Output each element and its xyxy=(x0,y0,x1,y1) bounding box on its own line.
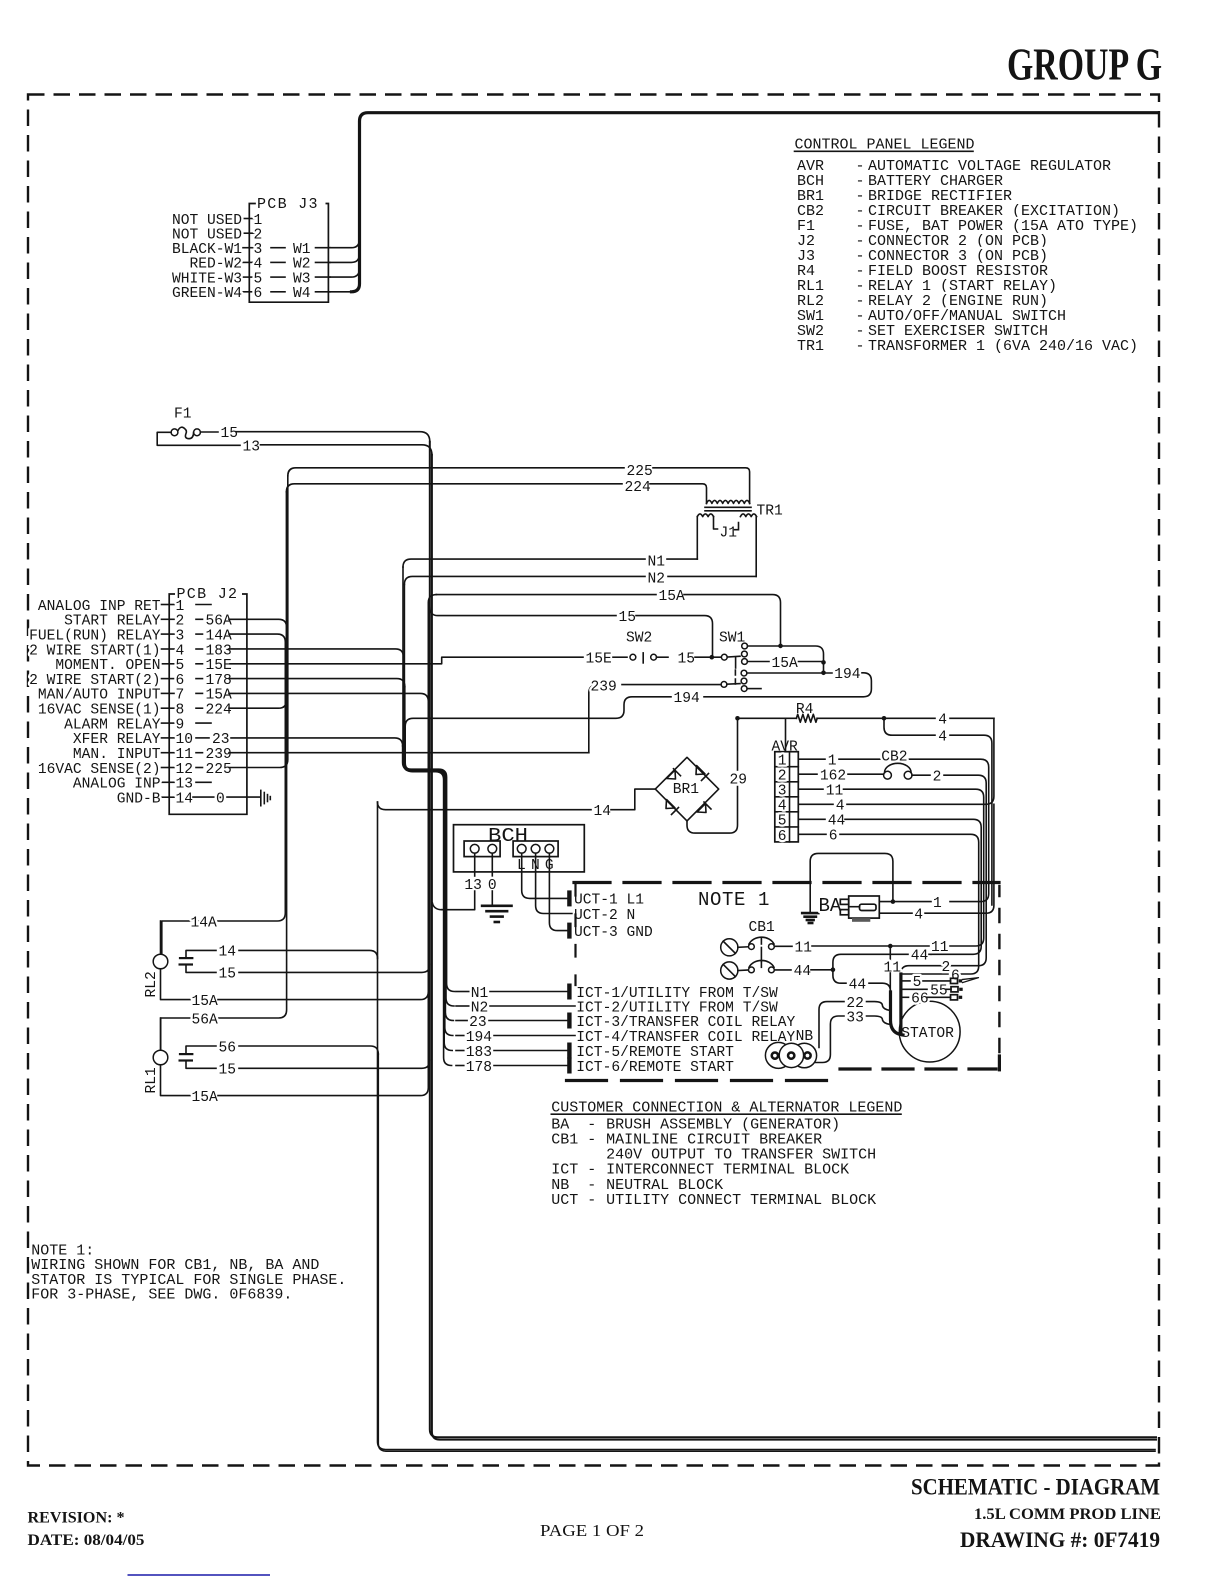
wire net 14 corner into BR1 run xyxy=(378,802,592,810)
wire net 66 with spade terminal xyxy=(903,996,909,998)
svg-text:MAN. INPUT: MAN. INPUT xyxy=(73,747,161,763)
svg-text:2: 2 xyxy=(176,614,185,630)
wire net N2 (TR1 to bundle) xyxy=(668,575,756,577)
svg-text:ICT-4/TRANSFER COIL RELAY: ICT-4/TRANSFER COIL RELAY xyxy=(576,1030,795,1046)
transformer TR1 secondary right coil xyxy=(740,514,756,517)
dashed boundary left edge xyxy=(574,884,576,985)
svg-text:15: 15 xyxy=(219,967,237,983)
wire net 4 from BA xyxy=(879,912,912,914)
J2 pin 7 MAN/AUTO INPUT xyxy=(162,692,175,694)
BR1 diode top-right xyxy=(696,766,709,781)
wire W3 to bus xyxy=(330,269,359,277)
svg-text:11: 11 xyxy=(795,940,813,956)
svg-text:PCB J2: PCB J2 xyxy=(177,586,239,603)
wire net 15A from SW1 xyxy=(747,661,769,663)
svg-text:1: 1 xyxy=(254,213,263,229)
svg-text:6: 6 xyxy=(176,673,185,689)
wire net 33 (NB to stator) xyxy=(815,1016,844,1063)
svg-text:2: 2 xyxy=(778,769,787,785)
J2 pin 5 MOMENT. OPEN xyxy=(162,663,175,665)
switch SW1 pole 1 stationary contacts xyxy=(742,643,748,649)
wire net 162 (AVR-2 to CB2) xyxy=(798,773,817,775)
svg-text:225: 225 xyxy=(627,464,653,480)
svg-text:TR1: TR1 xyxy=(757,503,784,519)
svg-text:13: 13 xyxy=(243,440,261,456)
svg-text:56: 56 xyxy=(219,1040,237,1056)
wire net 11 drop to stator xyxy=(889,946,891,960)
CB1 pole 2 screw terminal xyxy=(721,962,738,979)
svg-text:6: 6 xyxy=(254,286,263,302)
wire W1 to bus xyxy=(330,240,359,248)
wire net 44 upper run to bundle xyxy=(833,954,908,969)
terminal ICT-2 wire net N2 xyxy=(456,1005,469,1007)
svg-text:16VAC SENSE(2): 16VAC SENSE(2) xyxy=(38,762,161,778)
svg-text:11: 11 xyxy=(826,784,844,800)
svg-text:7: 7 xyxy=(176,688,185,704)
wire BCH N to UCT-2 xyxy=(536,853,575,913)
wire net 4 second run xyxy=(884,718,935,735)
svg-text:1: 1 xyxy=(828,754,837,770)
BCH terminal strip 13/0 xyxy=(464,841,500,857)
svg-text:ANALOG INP RET: ANALOG INP RET xyxy=(38,599,161,615)
svg-text:14: 14 xyxy=(219,945,237,961)
wire net 15 branch to SW1 xyxy=(430,608,616,616)
svg-text:224: 224 xyxy=(206,703,233,719)
svg-text:13: 13 xyxy=(464,878,482,894)
svg-text:ICT-6/REMOTE START: ICT-6/REMOTE START xyxy=(576,1060,734,1076)
junction dot net 15 at SW1 xyxy=(710,655,715,660)
relay RL2 coil leads xyxy=(160,921,162,954)
svg-text:5: 5 xyxy=(254,271,263,287)
svg-text:194: 194 xyxy=(834,667,861,683)
J3 pin 2 NOT USED xyxy=(243,232,255,234)
svg-text:4: 4 xyxy=(254,257,263,273)
svg-text:-: - xyxy=(587,1192,596,1209)
blue underline mark bottom-left xyxy=(128,1574,271,1576)
wire net 11 (AVR-3 to CB1) xyxy=(798,788,823,790)
svg-text:-: - xyxy=(587,1132,596,1149)
svg-text:MOMENT. OPEN: MOMENT. OPEN xyxy=(55,658,160,674)
J3 pin 3 BLACK-W1 xyxy=(243,247,255,249)
svg-text:MAN/AUTO INPUT: MAN/AUTO INPUT xyxy=(38,688,161,704)
svg-text:9: 9 xyxy=(176,717,185,733)
wire net 225 (J2-12 to TR1 primary right) xyxy=(288,468,624,476)
svg-text:1: 1 xyxy=(176,599,185,615)
svg-text:GREEN-W4: GREEN-W4 xyxy=(172,286,242,302)
wire SW1 pole2 bottom stub xyxy=(747,688,761,690)
svg-text:10: 10 xyxy=(176,732,194,748)
svg-text:66: 66 xyxy=(911,992,929,1008)
svg-text:194: 194 xyxy=(466,1030,493,1046)
transformer TR1 secondary left coil xyxy=(697,514,713,517)
svg-text:FOR 3-PHASE, SEE DWG. 0F6839.: FOR 3-PHASE, SEE DWG. 0F6839. xyxy=(31,1287,292,1304)
svg-text:NOTE 1: NOTE 1 xyxy=(698,889,770,911)
dashed boundary bottom-right step xyxy=(840,1067,996,1070)
svg-text:14A: 14A xyxy=(191,915,218,931)
connector PCB J3 box xyxy=(249,204,328,303)
svg-text:44: 44 xyxy=(911,949,929,965)
wire BCH G to UCT-3 xyxy=(549,853,567,930)
J2 pin14 wire to ground, net 0 xyxy=(193,796,214,798)
svg-text:178: 178 xyxy=(466,1060,492,1076)
terminal ICT-6 wire net 178 xyxy=(456,1065,464,1067)
svg-text:DATE: 08/04/05: DATE: 08/04/05 xyxy=(28,1532,145,1549)
page dashed border frame xyxy=(28,95,1159,1466)
wire net 14A vertical (J2-3 down to RL2) xyxy=(162,634,285,954)
relay RL2 contact leads xyxy=(186,950,216,958)
wire net 44 lower run to stator xyxy=(833,970,846,984)
wire net 44 from CB1 xyxy=(774,969,791,971)
BR1 diode top-left xyxy=(667,769,681,779)
wire net 29 (R4 to BR1 + output) xyxy=(737,718,739,770)
ground symbol at BA xyxy=(802,912,818,915)
svg-text:4: 4 xyxy=(778,799,787,815)
J2 pin 12 16VAC SENSE(2) xyxy=(162,767,175,769)
J3 pin 4 RED-W2 xyxy=(243,261,255,263)
J2 pin 3 FUEL(RUN) RELAY xyxy=(162,633,175,635)
wire net 1 from BA xyxy=(879,901,931,903)
wire net 239 up to SW1 xyxy=(589,685,599,753)
wire net 239 (J2-11 right) xyxy=(229,752,589,754)
wire net 13 long vertical (F1 down to bottom exit) xyxy=(432,455,1156,1440)
J2 pin 11 MAN. INPUT xyxy=(162,752,175,754)
relay RL2 contact bars xyxy=(180,957,192,959)
svg-text:4: 4 xyxy=(938,713,947,729)
wire RL1 15A to 15A vertical xyxy=(218,1088,428,1096)
svg-text:UCT-3 GND: UCT-3 GND xyxy=(574,925,653,941)
wire net 15A branch to SW1 area xyxy=(436,594,656,596)
dashed boundary bottom-left xyxy=(567,1079,837,1082)
svg-text:15: 15 xyxy=(221,426,239,442)
svg-text:START RELAY: START RELAY xyxy=(64,614,161,630)
svg-text:4: 4 xyxy=(938,730,947,746)
wire net 194 from SW1 pole2 xyxy=(747,672,832,674)
svg-text:J1: J1 xyxy=(720,525,738,541)
svg-text:15E: 15E xyxy=(206,658,232,674)
stator lead bar 2 (nets 2/6) xyxy=(899,974,902,1033)
svg-text:2 WIRE START(1): 2 WIRE START(1) xyxy=(29,643,160,659)
battery charger BCH box xyxy=(454,825,585,872)
svg-text:8: 8 xyxy=(176,703,185,719)
svg-text:UCT-2 N: UCT-2 N xyxy=(574,908,635,924)
wire net 4 (AVR-4 up into bundle) xyxy=(798,803,833,805)
wire RL1 contact 15 to net-15 vertical xyxy=(239,1060,430,1068)
svg-text:16VAC SENSE(1): 16VAC SENSE(1) xyxy=(38,703,161,719)
terminal UCT-3 xyxy=(567,923,571,939)
BCH terminal strip L N G xyxy=(513,841,558,857)
terminal ICT-3 wire net 23 xyxy=(456,1020,467,1022)
wire net 4 with resistor R4 xyxy=(735,716,740,721)
svg-text:SCHEMATIC - DIAGRAM: SCHEMATIC - DIAGRAM xyxy=(911,1475,1160,1500)
wire net N1 (TR1 to bundle) xyxy=(667,558,697,560)
wire net 11 from CB1 xyxy=(774,945,792,947)
svg-text:4: 4 xyxy=(176,643,185,659)
svg-text:56A: 56A xyxy=(192,1012,219,1028)
svg-text:15A: 15A xyxy=(206,688,233,704)
svg-text:-: - xyxy=(856,338,865,355)
wire net 15A long vertical xyxy=(428,595,436,1088)
wire net 44 (AVR-5 to CB1) xyxy=(798,818,825,820)
svg-text:14A: 14A xyxy=(206,628,233,644)
wire net 56 vertical (RL1 to bottom exit) xyxy=(378,1054,1155,1451)
svg-text:178: 178 xyxy=(206,673,232,689)
wire W4 to bus xyxy=(330,291,352,293)
svg-text:ICT-3/TRANSFER COIL RELAY: ICT-3/TRANSFER COIL RELAY xyxy=(576,1015,795,1031)
svg-text:3: 3 xyxy=(254,242,263,258)
svg-text:4: 4 xyxy=(836,799,845,815)
svg-text:14: 14 xyxy=(176,792,194,808)
AVR connector box xyxy=(775,752,799,842)
wire net 14 long vertical (BR1 AC to RL2 and bottom exit) xyxy=(378,802,1156,1450)
svg-text:W4: W4 xyxy=(293,286,311,302)
svg-text:11: 11 xyxy=(931,940,949,956)
wire net 22 (NB to stator) xyxy=(819,1002,844,1048)
J2 pin 4 2 WIRE START(1) xyxy=(162,648,175,650)
svg-text:WHITE-W3: WHITE-W3 xyxy=(172,271,242,287)
svg-text:44: 44 xyxy=(828,814,846,830)
switch SW1 mechanical link dashes xyxy=(734,670,736,684)
J2 pin 6 2 WIRE START(2) xyxy=(162,678,175,680)
stator lead bar 1 (nets 11/44) xyxy=(891,992,904,1035)
svg-text:15: 15 xyxy=(619,610,637,626)
svg-text:GND-B: GND-B xyxy=(117,792,161,808)
svg-text:239: 239 xyxy=(591,679,617,695)
wire SW1 top contact to 15A/194 tie xyxy=(748,646,824,673)
J2 pin 2 START RELAY xyxy=(162,618,175,620)
switch SW2 contacts xyxy=(613,656,627,658)
wire net 1 (AVR-1 to BA) xyxy=(798,758,825,760)
transformer TR1 core xyxy=(705,506,751,508)
wire net 15 long vertical (F1 down to bottom exit) xyxy=(430,442,1156,1437)
bridge rectifier BR1 diamond xyxy=(655,757,718,821)
svg-text:UCT-1 L1: UCT-1 L1 xyxy=(574,893,644,909)
J2 pin 10 XFER RELAY xyxy=(162,737,175,739)
wire RL1 contact 56 to net-56 vertical xyxy=(239,1046,378,1054)
svg-text:44: 44 xyxy=(794,964,812,980)
svg-text:DRAWING #: 0F7419: DRAWING #: 0F7419 xyxy=(960,1527,1160,1552)
wire W2 to bus xyxy=(330,254,359,262)
fuse F1 symbol xyxy=(171,429,178,436)
J2 pin 1 ANALOG INP RET xyxy=(162,604,175,606)
svg-text:W2: W2 xyxy=(293,257,311,273)
svg-text:CB1: CB1 xyxy=(749,920,776,936)
wire net 4 from bundle down to BA xyxy=(925,804,994,913)
wire net 15E (J2-5 to SW2) xyxy=(230,657,583,664)
J3 pin 1 NOT USED xyxy=(243,218,255,220)
switch SW1 pole 1 movable contact xyxy=(721,654,727,660)
svg-text:REVISION: *: REVISION: * xyxy=(28,1510,125,1527)
svg-text:15A: 15A xyxy=(192,1090,219,1106)
J2 pin 9 ALARM RELAY xyxy=(162,722,175,724)
switch SW1 pole 2 movable contact xyxy=(721,682,727,688)
svg-text:162: 162 xyxy=(820,769,846,785)
wire BCH L to UCT-1 xyxy=(522,853,567,898)
svg-text:3: 3 xyxy=(778,784,787,800)
ground symbol at J2-14 xyxy=(260,790,262,805)
svg-text:5: 5 xyxy=(176,658,185,674)
svg-text:UTILITY CONNECT TERMINAL BLOCK: UTILITY CONNECT TERMINAL BLOCK xyxy=(606,1192,876,1209)
svg-text:15E: 15E xyxy=(586,652,612,668)
neutral block NB grommets xyxy=(765,1042,791,1068)
svg-text:11: 11 xyxy=(176,747,194,763)
brush assembly BA connector body xyxy=(849,896,880,918)
wire net 225 stub up from J2-12 xyxy=(229,476,288,768)
resistor R4 zigzag xyxy=(796,714,817,722)
J2 pin 13 ANALOG INP xyxy=(162,781,175,783)
svg-text:N1: N1 xyxy=(648,554,666,570)
svg-text:N2: N2 xyxy=(648,572,666,588)
CB1 pole 1 contacts xyxy=(749,944,755,950)
svg-text:1: 1 xyxy=(933,896,942,912)
wire net 55 with spade terminal xyxy=(903,988,928,990)
BR1 diode bottom-right xyxy=(697,802,711,813)
relay RL1 coil circle xyxy=(153,1050,168,1065)
svg-text:NOT USED: NOT USED xyxy=(172,213,242,229)
svg-text:15A: 15A xyxy=(659,589,686,605)
svg-text:15A: 15A xyxy=(772,656,799,672)
svg-text:PCB J3: PCB J3 xyxy=(257,196,319,213)
svg-text:TRANSFORMER 1 (6VA 240/16 VAC): TRANSFORMER 1 (6VA 240/16 VAC) xyxy=(868,338,1138,355)
svg-text:CB1: CB1 xyxy=(551,1132,578,1149)
J3 pin 6 GREEN-W4 xyxy=(243,291,255,293)
svg-text:33: 33 xyxy=(846,1010,864,1026)
relay RL1 coil leads xyxy=(160,1018,162,1050)
wire RL2 contact 15 to net-15 vertical xyxy=(239,964,430,972)
svg-text:6: 6 xyxy=(829,829,838,845)
wire net N1 bundle run down to ICT xyxy=(403,567,455,991)
svg-text:56A: 56A xyxy=(206,614,233,630)
transformer TR1 primary coil xyxy=(707,500,750,503)
svg-text:23: 23 xyxy=(212,732,230,748)
svg-text:ANALOG INP: ANALOG INP xyxy=(73,777,161,793)
wire net 183 (J2-4 to bundle) xyxy=(229,649,403,657)
wire BA case ground loop xyxy=(810,853,893,911)
stator winding circle xyxy=(899,1001,960,1062)
svg-text:15: 15 xyxy=(678,652,696,668)
wire net 6 (AVR-6 to stator) xyxy=(798,833,826,835)
terminal ICT-1 wire net N1 xyxy=(456,991,469,993)
svg-text:BLACK-W1: BLACK-W1 xyxy=(172,242,242,258)
svg-text:183: 183 xyxy=(206,643,232,659)
CB1 pole 1 screw terminal xyxy=(721,939,738,956)
svg-text:2: 2 xyxy=(933,770,942,786)
terminal ICT-5 wire net 183 xyxy=(456,1050,464,1052)
svg-text:UCT: UCT xyxy=(551,1192,578,1209)
svg-text:6: 6 xyxy=(951,968,960,984)
svg-text:ALARM RELAY: ALARM RELAY xyxy=(64,717,161,733)
svg-text:RL2: RL2 xyxy=(144,971,160,997)
J2 pin 8 16VAC SENSE(1) xyxy=(162,707,175,709)
svg-text:TR1: TR1 xyxy=(797,338,824,355)
svg-text:5: 5 xyxy=(778,814,787,830)
wire BCH terminal 0 to ground xyxy=(491,853,493,876)
svg-text:SW2: SW2 xyxy=(626,631,652,647)
J3 pin 5 WHITE-W3 xyxy=(243,276,255,278)
svg-text:PAGE 1 OF 2: PAGE 1 OF 2 xyxy=(540,1521,644,1540)
svg-text:GROUP G: GROUP G xyxy=(1007,39,1162,90)
svg-text:W3: W3 xyxy=(293,271,311,287)
wire net 194 bundle run down to ICT xyxy=(405,726,453,1035)
svg-text:13: 13 xyxy=(176,777,194,793)
svg-text:11: 11 xyxy=(884,961,902,977)
svg-text:BR1: BR1 xyxy=(673,782,700,798)
svg-text:1.5L COMM PROD LINE: 1.5L COMM PROD LINE xyxy=(974,1506,1161,1523)
wire net 23 (J2-10 to bundle) xyxy=(231,738,403,746)
svg-text:15A: 15A xyxy=(192,994,219,1010)
svg-text:1: 1 xyxy=(778,754,787,770)
svg-text:23: 23 xyxy=(469,1015,487,1031)
svg-text:0: 0 xyxy=(216,791,225,807)
svg-text:STATOR: STATOR xyxy=(901,1026,954,1042)
svg-text:12: 12 xyxy=(176,762,194,778)
dashed customer-connection boundary top xyxy=(574,881,999,884)
wire RL2 15A to 15A vertical xyxy=(218,992,428,1000)
CB1 pole 2 contacts xyxy=(749,967,755,973)
svg-text:W1: W1 xyxy=(293,242,311,258)
svg-text:14: 14 xyxy=(594,804,612,820)
svg-text:FUEL(RUN) RELAY: FUEL(RUN) RELAY xyxy=(29,628,161,644)
svg-text:239: 239 xyxy=(206,747,232,763)
svg-text:3: 3 xyxy=(176,628,185,644)
wire net 56A vertical (J2-2 down to RL1) xyxy=(161,619,287,1050)
wire net 15A (J2-7 to 15A vertical) xyxy=(229,693,428,701)
svg-text:2 WIRE START(2): 2 WIRE START(2) xyxy=(29,673,160,689)
connector PCB J2 box xyxy=(169,594,247,814)
thick bus wire top (battery feed to page 2) xyxy=(352,113,1158,292)
svg-text:F1: F1 xyxy=(174,406,192,422)
svg-text:224: 224 xyxy=(625,480,652,496)
wire net 224 (J2-8 to TR1 primary left) xyxy=(286,484,622,492)
wire net 13 from F1 (lower lead) xyxy=(157,432,240,445)
svg-text:RED-W2: RED-W2 xyxy=(189,257,242,273)
svg-text:RL1: RL1 xyxy=(144,1067,160,1094)
svg-text:ICT-5/REMOTE START: ICT-5/REMOTE START xyxy=(576,1045,734,1061)
svg-text:BA: BA xyxy=(819,895,842,917)
svg-text:194: 194 xyxy=(674,691,701,707)
BR1 diode bottom-left xyxy=(666,800,679,815)
svg-text:4: 4 xyxy=(914,908,923,924)
wire net 224 stub up from J2-8 xyxy=(229,492,286,708)
wire net 183 bundle run down to ICT xyxy=(403,657,452,1051)
wire net 15 from F1 xyxy=(201,431,219,433)
terminal UCT-1 xyxy=(567,890,571,906)
svg-text:15: 15 xyxy=(219,1063,237,1079)
relay RL1 contact leads xyxy=(186,1046,216,1054)
J2 pin 14 GND-B xyxy=(162,796,175,798)
svg-text:44: 44 xyxy=(849,978,867,994)
wire net 178 bundle run down to ICT xyxy=(405,687,452,1066)
wire BCH terminal 13 down to net 13 xyxy=(474,853,476,876)
wire net 5 with spade terminal xyxy=(903,980,911,982)
ground symbol below BCH xyxy=(482,904,511,907)
wire net 2 (CB2 to stator) xyxy=(912,774,930,776)
svg-text:2: 2 xyxy=(942,960,951,976)
wire net 178 (J2-6 to bundle) xyxy=(229,679,405,687)
svg-text:XFER RELAY: XFER RELAY xyxy=(73,732,161,748)
wire AVR top lead xyxy=(785,718,787,751)
svg-text:183: 183 xyxy=(466,1045,492,1061)
wire RL2 contact 14 to net-14 vertical xyxy=(239,950,378,958)
dashed boundary right edge xyxy=(998,886,1000,1052)
svg-text:225: 225 xyxy=(206,762,232,778)
relay RL2 coil circle xyxy=(153,954,168,969)
wire net 23 bundle run down to ICT xyxy=(403,746,454,1021)
relay RL1 contact bars xyxy=(180,1053,192,1055)
svg-text:6: 6 xyxy=(778,829,787,845)
terminal ICT-4 wire net 194 xyxy=(456,1035,464,1037)
wire net N2 bundle run down to ICT xyxy=(404,584,454,1006)
switch SW1 pole 2 stationary contacts xyxy=(741,670,747,676)
